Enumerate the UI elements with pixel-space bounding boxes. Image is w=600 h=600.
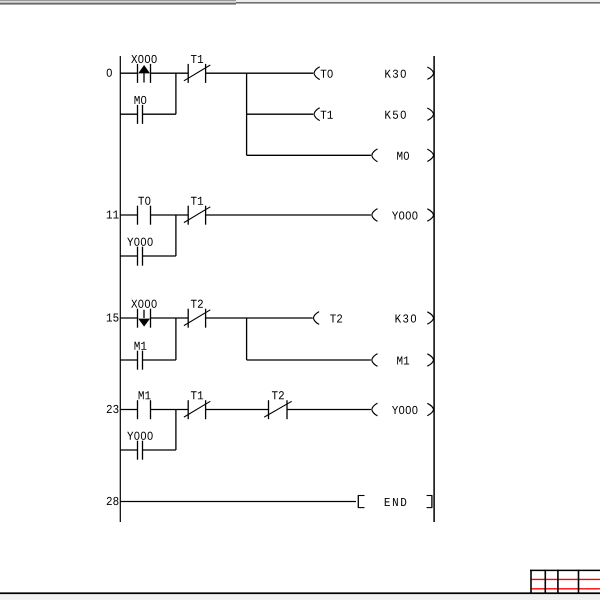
coil M1 open paren <box>372 354 378 367</box>
title block red row lines <box>532 579 600 588</box>
coil Y000 close paren (rung3) <box>427 403 433 415</box>
contact T1 normally closed <box>184 55 210 83</box>
coil T0 constant K30 <box>385 70 406 78</box>
wire rung0 row2: M0 to branch vertical <box>143 113 176 115</box>
bottom page boundary line <box>0 592 600 594</box>
coil T1 open paren <box>314 108 320 121</box>
contact M1 (parallel branch rung2) <box>134 342 146 370</box>
status bar strip <box>0 594 600 600</box>
coil M1 close paren <box>427 354 433 366</box>
contact T1 normally closed (rung3) <box>184 391 210 419</box>
coil M0 open paren <box>372 149 378 162</box>
branch vertical rung2 <box>175 318 177 360</box>
contact T2 normally closed <box>184 300 210 328</box>
wire rung2 row2: M1 to branch vertical <box>143 359 176 361</box>
wire rung3 row2: Y000 to branch vertical <box>143 449 176 451</box>
wire rung2 row1: rail to X000 <box>120 317 137 319</box>
contact M0 (parallel branch) <box>134 96 146 124</box>
contact T0 normally open <box>138 197 151 225</box>
title block table frame <box>530 570 600 594</box>
wire rung1 row2: rail to Y000 contact <box>120 255 137 257</box>
junction vertical rung0 (rows 1-3) <box>246 73 248 155</box>
END open bracket <box>358 495 364 508</box>
coil T1 close paren <box>427 108 433 120</box>
coil T2 open paren <box>313 312 319 325</box>
rung 3 step number 23 <box>107 405 119 413</box>
coil T2 close paren <box>427 312 433 324</box>
right power rail <box>433 56 435 522</box>
wire rung3 row2: rail to Y000 contact <box>120 449 137 451</box>
wire rung3 row1: T2 to coil Y000 <box>287 409 371 411</box>
wire rung2 row1: X000 to T2 <box>151 317 189 319</box>
wire rung1 row1: T1 to coil Y000 <box>206 214 371 216</box>
coil T0 close paren <box>427 67 433 79</box>
branch vertical rung1 <box>175 215 177 256</box>
wire rung0 row2: junction to coil T1 <box>247 113 314 115</box>
coil T0 open paren <box>314 67 320 80</box>
branch vertical rung0 (M0 parallel) <box>175 73 177 114</box>
wire rung0 row1: rail to X000 <box>120 72 137 74</box>
rung 2 step number 15 <box>107 314 119 322</box>
END instruction label <box>385 498 407 506</box>
coil Y000 close paren (rung1) <box>427 209 433 221</box>
toolbar bottom edge bar (left segment) <box>0 0 236 5</box>
wire rung2 row1: T2 to coil T2 <box>206 317 313 319</box>
wire rung4: rail to END bracket <box>120 501 356 503</box>
coil Y000 label (rung1) <box>392 211 417 219</box>
coil Y000 open paren (rung3) <box>372 403 378 416</box>
contact T2 normally closed (rung3) <box>264 391 292 419</box>
wire rung1 row1: T0 to T1 <box>151 214 189 216</box>
coil M0 close paren <box>427 149 433 161</box>
wire rung0 row1: X000 to T1 <box>151 72 189 74</box>
contact X000 falling edge pulse (LDF) <box>131 300 156 328</box>
coil M1 label <box>397 357 409 365</box>
contact Y000 (parallel branch rung3) <box>127 432 152 460</box>
coil T1 label <box>321 111 333 119</box>
branch vertical rung3 <box>175 410 177 451</box>
wire rung2 row2: rail to M1 contact <box>120 359 137 361</box>
coil T2 constant K30 <box>395 314 416 322</box>
junction vertical rung2 (rows 1-2) <box>246 318 248 360</box>
wire rung0 row1: T1 to coil T0 <box>206 72 314 74</box>
wire rung3 row1: rail to M1 <box>120 409 137 411</box>
wire rung0 row3: junction to coil M0 <box>247 154 371 156</box>
contact X000 rising edge pulse (LDP) <box>131 55 156 83</box>
wire rung1 row1: rail to T0 <box>120 214 137 216</box>
rung 1 step number 11 <box>107 211 119 219</box>
wire rung3 row1: T1 to T2 <box>206 409 269 411</box>
wire rung0 row2: rail to M0 <box>120 113 137 115</box>
coil Y000 label (rung3) <box>392 406 417 414</box>
contact M1 normally open <box>138 391 151 419</box>
coil T2 label <box>330 314 342 322</box>
coil T1 constant K50 <box>385 111 406 119</box>
coil M0 label <box>397 152 409 160</box>
wire rung1 row2: Y000 to branch vertical <box>143 255 176 257</box>
toolbar bottom edge line (full width) <box>236 0 600 4</box>
rung 0 step number 0 <box>107 69 112 77</box>
wire rung3 row1: M1 to T1 <box>151 409 189 411</box>
END close bracket <box>427 495 432 508</box>
wire rung2 row2: junction to coil M1 <box>247 359 371 361</box>
contact T1 normally closed (rung1) <box>184 197 210 225</box>
rung 4 step number 28 <box>107 497 119 505</box>
coil Y000 open paren (rung1) <box>372 209 378 222</box>
left power rail <box>119 56 121 522</box>
coil T0 label <box>321 70 333 78</box>
contact Y000 (parallel branch rung1) <box>127 238 152 266</box>
